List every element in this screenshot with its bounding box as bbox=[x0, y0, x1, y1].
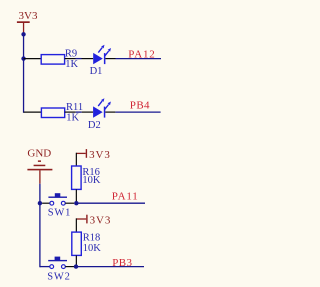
wire (R11 to D2) bbox=[65, 111, 93, 113]
svg-text:10K: 10K bbox=[83, 243, 102, 254]
LED D1 bbox=[90, 45, 111, 77]
resistor R11 bbox=[41, 102, 83, 123]
svg-text:R9: R9 bbox=[65, 48, 77, 59]
node (junction at R9 branch) bbox=[21, 56, 25, 60]
wire (R18 pin 2 to SW2) bbox=[75, 255, 77, 266]
svg-text:SW2: SW2 bbox=[47, 271, 70, 282]
wire (3V3 to R18 pin 1) bbox=[75, 218, 77, 232]
junction (3V3 rail top) bbox=[21, 32, 25, 36]
node (junction SW1/R16) bbox=[74, 201, 78, 205]
wire (junction to PB3) bbox=[76, 266, 144, 268]
wire (D1 to PA12) bbox=[105, 58, 161, 60]
wire (SW2 pin 2 to junction) bbox=[65, 266, 74, 268]
wire (R9 to D1) bbox=[65, 58, 94, 60]
switch SW1 bbox=[48, 193, 71, 218]
resistor R16 bbox=[72, 166, 101, 189]
power port 3V3 (top) bbox=[17, 10, 38, 34]
wire (GND vertical rail) bbox=[39, 184, 41, 268]
svg-text:3V3: 3V3 bbox=[90, 214, 112, 226]
svg-text:PB4: PB4 bbox=[130, 100, 150, 112]
svg-text:PB3: PB3 bbox=[112, 257, 132, 269]
ground GND bbox=[27, 147, 52, 183]
svg-text:PA11: PA11 bbox=[112, 191, 139, 203]
svg-text:1K: 1K bbox=[66, 112, 79, 123]
power port 3V3 (at R18) bbox=[76, 214, 111, 226]
svg-text:SW1: SW1 bbox=[48, 208, 71, 219]
node (junction SW2/R18) bbox=[74, 264, 78, 268]
switch SW2 bbox=[47, 257, 70, 283]
node (junction at SW1) bbox=[38, 201, 42, 205]
wire (rail elbow to R11 pin 1) bbox=[24, 111, 42, 113]
svg-text:D2: D2 bbox=[88, 120, 101, 131]
wire (junction to R9 pin 1) bbox=[24, 58, 42, 60]
power port 3V3 (at R16) bbox=[76, 149, 110, 161]
svg-text:D1: D1 bbox=[90, 66, 103, 77]
wire (R16 pin 2 to SW1) bbox=[75, 189, 77, 203]
svg-text:R11: R11 bbox=[66, 102, 83, 113]
wire (3V3 to R16 pin 1) bbox=[75, 153, 77, 166]
svg-text:10K: 10K bbox=[82, 175, 101, 186]
svg-text:3V3: 3V3 bbox=[89, 149, 111, 161]
wire (3V3 vertical rail) bbox=[23, 34, 25, 112]
svg-text:1K: 1K bbox=[65, 59, 78, 70]
svg-text:PA12: PA12 bbox=[128, 48, 155, 60]
svg-text:GND: GND bbox=[27, 147, 51, 159]
wire (SW1 pin 2 to junction) bbox=[65, 202, 74, 204]
wire (GND rail to SW1 pin 1) bbox=[42, 202, 50, 204]
wire (junction to PA11) bbox=[76, 202, 145, 204]
resistor R18 bbox=[72, 232, 102, 255]
svg-text:3V3: 3V3 bbox=[19, 10, 38, 22]
wire (D2 to PB4) bbox=[105, 111, 160, 113]
LED D2 bbox=[88, 98, 111, 131]
resistor R9 bbox=[41, 48, 78, 70]
wire (GND rail elbow to SW2 pin 1) bbox=[40, 266, 50, 268]
